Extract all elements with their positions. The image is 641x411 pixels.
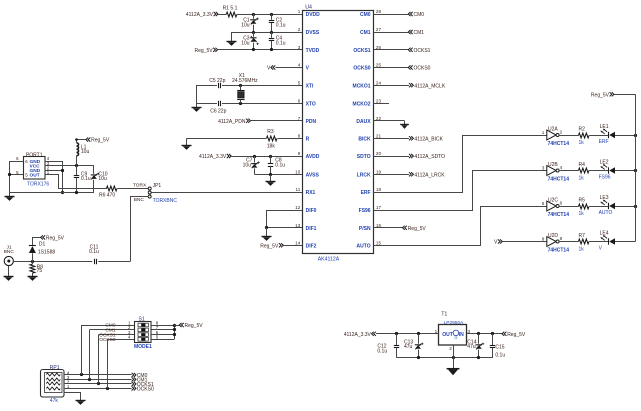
connector PORT1 TORX176 <box>16 152 50 187</box>
net OCKS0 <box>132 386 154 392</box>
wire MCKO2 stub <box>373 103 389 105</box>
svg-text:LE1: LE1 <box>600 124 609 130</box>
ground <box>64 393 86 405</box>
svg-text:OCKS1: OCKS1 <box>353 48 370 54</box>
svg-text:AUTO: AUTO <box>357 244 371 250</box>
svg-text:Reg_5V: Reg_5V <box>591 93 610 99</box>
svg-text:G: G <box>454 335 457 340</box>
net OCKS0 <box>373 65 430 71</box>
svg-text:9: 9 <box>542 236 545 241</box>
svg-text:4112A_3.3V: 4112A_3.3V <box>199 154 227 160</box>
svg-text:0.1u: 0.1u <box>276 22 286 28</box>
svg-text:OCKS1: OCKS1 <box>414 48 431 54</box>
svg-text:6: 6 <box>298 98 301 103</box>
svg-text:R6 470: R6 470 <box>99 193 115 199</box>
svg-text:OCKS0: OCKS0 <box>414 66 431 72</box>
svg-text:SDTO: SDTO <box>357 154 371 160</box>
ground <box>5 193 15 201</box>
wire <box>218 13 302 16</box>
svg-text:24.576MHz: 24.576MHz <box>232 78 258 84</box>
wire <box>45 161 64 194</box>
svg-text:DVDD: DVDD <box>306 12 321 18</box>
net Reg_5V <box>260 243 283 249</box>
svg-text:LE2: LE2 <box>600 160 609 166</box>
svg-text:LE4: LE4 <box>600 231 609 237</box>
svg-text:TORX: TORX <box>133 183 147 189</box>
svg-text:24: 24 <box>376 80 382 85</box>
wire <box>453 345 455 358</box>
svg-text:R: R <box>306 137 310 143</box>
inverter U2C 74HCT14 <box>542 197 569 217</box>
ground <box>266 175 276 186</box>
diode D1 1S1588 <box>29 238 55 262</box>
net Reg_5V <box>195 48 218 54</box>
svg-text:74HCT14: 74HCT14 <box>548 141 570 147</box>
inverter U2A 74HCT14 <box>542 126 569 146</box>
wire DAUX <box>373 120 404 122</box>
svg-text:9: 9 <box>298 151 301 156</box>
svg-text:PORT1: PORT1 <box>26 152 43 158</box>
capacitor C14 <box>467 334 484 358</box>
wire <box>231 155 302 158</box>
svg-text:4112A_3.3V: 4112A_3.3V <box>186 12 214 18</box>
node OCKS1 <box>99 332 116 338</box>
svg-text:10u: 10u <box>98 176 107 182</box>
net 4112A_3.3V <box>186 12 218 18</box>
wire <box>466 332 502 335</box>
net V <box>494 239 502 245</box>
wire <box>559 241 578 243</box>
svg-text:4: 4 <box>298 63 301 68</box>
svg-text:3: 3 <box>542 165 545 170</box>
net CM1 <box>132 377 148 383</box>
svg-text:4112A_PDN: 4112A_PDN <box>218 119 246 125</box>
wire LED supply bus <box>614 94 635 241</box>
capacitor C4 <box>269 32 286 50</box>
svg-text:XTO: XTO <box>306 101 316 107</box>
ground <box>182 138 192 150</box>
svg-text:1: 1 <box>542 130 545 135</box>
svg-text:LE3: LE3 <box>600 195 609 201</box>
svg-text:JP1: JP1 <box>153 183 162 189</box>
wire <box>615 169 637 172</box>
svg-text:S1: S1 <box>139 316 145 322</box>
svg-text:MCKO1: MCKO1 <box>353 83 371 89</box>
wire <box>196 84 303 87</box>
inductor L1 <box>75 138 89 165</box>
svg-text:4: 4 <box>128 335 131 340</box>
regulator T1 LP2950A <box>435 311 471 351</box>
wire <box>615 205 637 208</box>
net CM1 <box>373 30 424 36</box>
svg-text:OUT: OUT <box>30 173 40 179</box>
svg-text:CM0: CM0 <box>414 12 425 18</box>
IC U4 AK4112A <box>295 4 381 262</box>
svg-text:4112A_SDTO: 4112A_SDTO <box>414 154 445 160</box>
net 4112A_PDN <box>218 119 250 125</box>
svg-text:V: V <box>599 246 603 252</box>
svg-text:ERF: ERF <box>599 139 609 145</box>
svg-text:74HCT14: 74HCT14 <box>548 176 570 182</box>
wire <box>8 161 24 193</box>
svg-text:1S1588: 1S1588 <box>38 250 55 256</box>
wire <box>46 175 107 189</box>
wire <box>64 378 132 381</box>
wire ground rail <box>10 191 94 194</box>
svg-text:U2A: U2A <box>548 126 558 132</box>
svg-text:10: 10 <box>295 169 301 174</box>
svg-text:RX1: RX1 <box>306 190 316 196</box>
switch S1 MODE1 <box>128 316 159 350</box>
net Reg_5V <box>591 92 614 98</box>
ground <box>4 266 14 281</box>
svg-text:1k: 1k <box>579 140 585 146</box>
capacitor C2 <box>269 14 286 32</box>
net 4112A_LRCK <box>373 172 445 178</box>
svg-text:0.1u: 0.1u <box>276 40 286 46</box>
node CM1 <box>105 328 115 334</box>
svg-text:BNC: BNC <box>134 197 145 203</box>
capacitor C1 <box>241 14 259 32</box>
svg-text:XTI: XTI <box>306 83 314 89</box>
wire <box>254 173 302 176</box>
svg-text:CM0: CM0 <box>360 12 371 18</box>
svg-text:2: 2 <box>298 27 301 32</box>
wire VCC node <box>45 164 94 167</box>
LED LE1 <box>599 124 615 145</box>
ground <box>447 358 460 376</box>
svg-text:0.1u: 0.1u <box>495 352 505 358</box>
svg-text:10u: 10u <box>241 40 250 46</box>
wire <box>267 210 303 212</box>
svg-text:D1: D1 <box>39 241 46 247</box>
svg-text:5: 5 <box>542 201 545 206</box>
wire <box>64 373 132 376</box>
net OCKS1 <box>373 48 430 54</box>
svg-text:15: 15 <box>376 240 382 245</box>
capacitor C9 <box>74 166 91 193</box>
capacitor C7 <box>243 156 260 174</box>
net Reg_5V <box>502 332 526 338</box>
wire <box>187 138 303 140</box>
svg-text:TORXBNC: TORXBNC <box>153 198 178 204</box>
svg-text:LP2950A: LP2950A <box>444 320 465 326</box>
wire <box>589 135 608 137</box>
svg-text:C6 22p: C6 22p <box>210 109 226 115</box>
capacitor C12 <box>377 334 399 358</box>
wire AUTO <box>374 207 547 246</box>
ground <box>400 121 409 129</box>
svg-text:3: 3 <box>298 45 301 50</box>
net 4112A_MCLK <box>373 83 445 89</box>
svg-text:OCKS0: OCKS0 <box>99 337 116 343</box>
svg-text:R5: R5 <box>579 198 586 204</box>
wire <box>64 382 132 385</box>
svg-text:Reg_5V: Reg_5V <box>185 323 204 329</box>
svg-text:Reg_5V: Reg_5V <box>46 236 65 242</box>
svg-text:R4: R4 <box>579 162 586 168</box>
svg-text:LRCK: LRCK <box>357 173 371 179</box>
svg-text:8: 8 <box>298 133 301 138</box>
net CM0 <box>132 373 148 379</box>
crystal X1 <box>232 73 258 103</box>
svg-text:1k: 1k <box>579 211 585 217</box>
resistor R3 <box>266 129 277 149</box>
LED LE3 <box>599 195 615 216</box>
wire <box>559 135 578 137</box>
svg-text:AVDD: AVDD <box>306 154 320 160</box>
svg-text:2: 2 <box>560 129 563 134</box>
wire <box>218 48 303 51</box>
svg-text:8: 8 <box>560 236 563 241</box>
wire <box>265 210 303 229</box>
LED LE2 <box>599 160 615 181</box>
svg-text:14: 14 <box>295 240 301 245</box>
wire <box>98 261 130 263</box>
wire ERF <box>374 136 547 193</box>
capacitor C10 <box>91 166 108 193</box>
wire <box>589 206 608 208</box>
wire <box>64 387 132 390</box>
wire <box>559 206 578 208</box>
svg-text:U2B: U2B <box>548 162 558 168</box>
resistor pack RP1 47k <box>41 365 70 404</box>
svg-text:U2C: U2C <box>548 197 558 203</box>
svg-text:18: 18 <box>376 187 382 192</box>
wire <box>376 332 438 335</box>
svg-text:17: 17 <box>376 205 382 210</box>
wire <box>589 170 608 172</box>
svg-text:23: 23 <box>376 98 382 103</box>
svg-text:FS96: FS96 <box>599 175 611 181</box>
svg-text:19: 19 <box>376 169 382 174</box>
ground <box>262 228 272 241</box>
svg-text:CM1: CM1 <box>414 30 425 36</box>
svg-text:AVSS: AVSS <box>306 173 320 179</box>
svg-text:4112A_LRCK: 4112A_LRCK <box>414 172 445 178</box>
svg-text:Reg_5V: Reg_5V <box>195 48 214 54</box>
svg-text:5: 5 <box>156 335 159 340</box>
svg-text:Reg_5V: Reg_5V <box>507 332 526 338</box>
ground <box>192 104 202 112</box>
wire <box>196 102 303 105</box>
svg-text:R3: R3 <box>267 129 274 135</box>
capacitor C11 <box>89 245 99 265</box>
capacitor C8 <box>268 156 285 174</box>
wire <box>589 241 608 243</box>
resistor R1 <box>223 5 238 17</box>
svg-text:FS96: FS96 <box>359 208 371 214</box>
capacitor C6 <box>210 101 226 115</box>
svg-text:12: 12 <box>295 205 301 210</box>
svg-text:28: 28 <box>376 9 382 14</box>
resistor R5 <box>578 198 589 218</box>
net Reg_5V <box>41 235 65 241</box>
resistor R4 <box>578 162 589 182</box>
wire <box>131 197 149 262</box>
svg-text:DIF2: DIF2 <box>306 244 317 250</box>
svg-text:1: 1 <box>298 9 301 14</box>
svg-text:OCKS0: OCKS0 <box>137 386 154 392</box>
resistor R2 <box>578 127 589 147</box>
wire <box>81 326 135 340</box>
net Reg_5V <box>373 226 426 232</box>
svg-text:C15: C15 <box>495 345 504 351</box>
svg-text:2: 2 <box>449 346 452 351</box>
wire <box>13 260 92 263</box>
resistor R8 <box>30 261 43 276</box>
svg-text:Reg_5V: Reg_5V <box>91 138 110 144</box>
connector J1 BNC <box>4 245 15 266</box>
wire <box>503 241 547 243</box>
svg-text:DIF1: DIF1 <box>306 226 317 232</box>
net V <box>267 65 275 71</box>
inverter U2B 74HCT14 <box>542 162 569 182</box>
svg-text:R7: R7 <box>579 233 586 239</box>
svg-text:10u: 10u <box>243 163 252 169</box>
ground <box>227 32 237 46</box>
wire <box>284 245 303 247</box>
net OCKS1 <box>132 382 154 388</box>
svg-text:11: 11 <box>296 187 301 192</box>
svg-text:CM1: CM1 <box>360 30 371 36</box>
svg-text:7: 7 <box>298 116 301 121</box>
svg-text:DIF0: DIF0 <box>306 208 317 214</box>
svg-text:13: 13 <box>295 223 301 228</box>
wire <box>276 67 303 69</box>
svg-text:0.1u: 0.1u <box>81 176 91 182</box>
svg-text:AUTO: AUTO <box>599 210 613 216</box>
svg-text:P/SN: P/SN <box>359 226 371 232</box>
svg-text:U2D: U2D <box>548 233 558 239</box>
svg-text:1k: 1k <box>579 247 585 253</box>
svg-text:OUT: OUT <box>442 332 453 338</box>
svg-text:Reg_5V: Reg_5V <box>260 243 279 249</box>
svg-text:V: V <box>267 66 271 72</box>
node OCKS0 <box>99 337 116 343</box>
jumper JP1 TORXBNC <box>133 183 177 205</box>
svg-text:R1 5.1: R1 5.1 <box>223 5 238 11</box>
net 4112A_SDTO <box>373 154 445 160</box>
svg-text:4112A_MCLK: 4112A_MCLK <box>414 83 445 89</box>
wire <box>559 170 578 172</box>
wire <box>396 356 493 359</box>
resistor R7 <box>578 233 589 253</box>
capacitor C13 <box>404 334 423 358</box>
svg-text:BICK: BICK <box>358 137 371 143</box>
svg-text:4112A_BICK: 4112A_BICK <box>414 136 443 142</box>
svg-text:20: 20 <box>376 151 382 156</box>
svg-text:C5 22p: C5 22p <box>209 78 225 84</box>
svg-text:TORX176: TORX176 <box>27 182 49 188</box>
svg-text:1k: 1k <box>579 176 585 182</box>
capacitor C15 <box>490 334 506 359</box>
wire <box>117 188 148 190</box>
svg-text:74HCT14: 74HCT14 <box>548 247 570 253</box>
capacitor C3 <box>241 32 259 50</box>
svg-text:10u: 10u <box>81 149 90 155</box>
svg-text:4112A_3.3V: 4112A_3.3V <box>344 332 372 338</box>
svg-text:75: 75 <box>37 268 43 274</box>
wire <box>196 85 198 103</box>
wire <box>82 326 108 389</box>
ground <box>28 277 38 281</box>
net 4112A_3.3V <box>199 154 231 160</box>
resistor R6 <box>99 186 117 199</box>
wire <box>615 134 637 137</box>
wire RX1 <box>151 192 302 194</box>
wire FS96 <box>374 171 547 211</box>
svg-text:V: V <box>494 240 498 246</box>
svg-text:5: 5 <box>298 80 301 85</box>
svg-text:0.1u: 0.1u <box>275 163 285 169</box>
svg-text:27: 27 <box>376 27 382 32</box>
svg-text:47u: 47u <box>404 344 413 350</box>
capacitor C5 <box>209 78 225 88</box>
net Reg_5V <box>174 323 203 329</box>
svg-text:25: 25 <box>376 63 382 68</box>
svg-text:IN: IN <box>459 332 464 338</box>
svg-text:6: 6 <box>16 156 19 161</box>
svg-text:0.1u: 0.1u <box>377 349 387 355</box>
svg-text:OCKS0: OCKS0 <box>353 66 370 72</box>
svg-text:U4: U4 <box>305 4 312 10</box>
svg-text:21: 21 <box>376 133 382 138</box>
svg-text:AK4112A: AK4112A <box>318 256 340 262</box>
svg-text:47u: 47u <box>467 344 476 350</box>
net CM0 <box>373 12 424 18</box>
net Reg_5V <box>86 138 110 144</box>
svg-text:MODE1: MODE1 <box>134 344 152 350</box>
svg-text:T1: T1 <box>441 311 447 317</box>
svg-text:ERF: ERF <box>361 190 371 196</box>
svg-text:4: 4 <box>560 165 563 170</box>
net 4112A_BICK <box>373 136 443 142</box>
LED LE4 <box>599 231 615 252</box>
wire <box>615 241 636 243</box>
svg-text:47k: 47k <box>50 398 59 404</box>
net 4112A_3.3V <box>344 332 376 338</box>
svg-text:18k: 18k <box>267 144 276 150</box>
svg-text:0.1u: 0.1u <box>89 249 99 255</box>
wire <box>232 31 303 34</box>
svg-text:R2: R2 <box>579 127 586 133</box>
wire <box>151 324 176 340</box>
svg-text:TVDD: TVDD <box>306 48 320 54</box>
svg-text:RP1: RP1 <box>50 365 60 371</box>
svg-text:BNC: BNC <box>4 249 15 255</box>
svg-text:74HCT14: 74HCT14 <box>548 212 570 218</box>
inverter U2D 74HCT14 <box>542 233 569 253</box>
svg-text:Reg_5V: Reg_5V <box>408 226 427 232</box>
svg-text:PDN: PDN <box>306 119 317 125</box>
wire <box>251 120 303 122</box>
svg-text:MCKO2: MCKO2 <box>353 101 371 107</box>
node CM0 <box>105 323 115 329</box>
svg-text:DAUX: DAUX <box>356 119 371 125</box>
svg-text:10u: 10u <box>241 22 250 28</box>
svg-text:6: 6 <box>560 200 563 205</box>
svg-text:DVSS: DVSS <box>306 30 320 36</box>
